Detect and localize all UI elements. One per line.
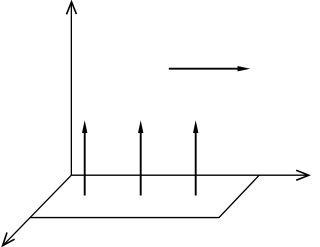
velocity arrow [169,66,251,71]
diagonal axis (x) [3,175,72,246]
horizontal axis (y) [71,170,308,180]
field arrow 3 [193,120,198,195]
plane parallelogram [30,175,260,217]
vertical axis (z) [67,2,77,175]
field arrow 2 [138,120,143,195]
field arrow 1 [82,120,87,195]
